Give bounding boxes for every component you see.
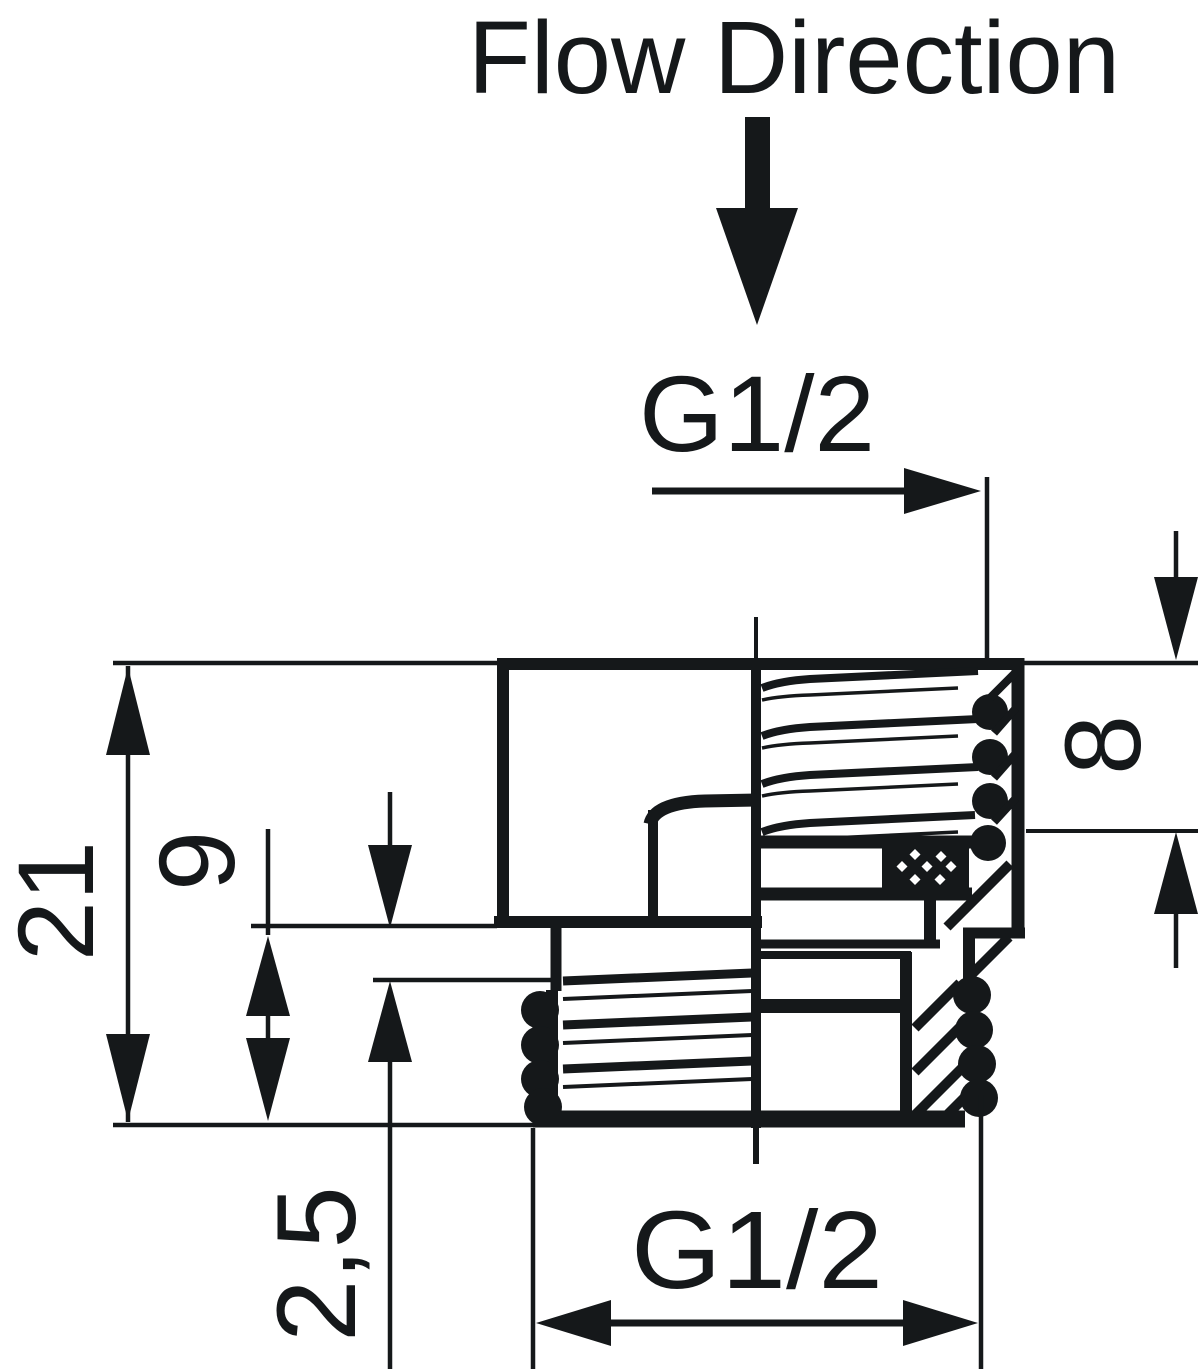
extension line y=926: [251, 924, 497, 929]
upper thread profile bumps: [970, 694, 1008, 861]
arrowhead G1/2 top leader: [904, 468, 981, 514]
centerline: [754, 617, 758, 660]
lower left thread bumps: [521, 991, 562, 1126]
bottom G1/2 extension lines: [531, 1128, 536, 1369]
dimension 2,5 line: [388, 792, 393, 850]
lower left step vertical: [551, 928, 562, 991]
upper female thread lines: [762, 671, 978, 832]
lower right thread bumps: [953, 976, 998, 1117]
body top line: [497, 658, 1018, 670]
inner step top arc: [650, 800, 757, 824]
arrowhead 21 bottom: [106, 1034, 150, 1121]
arrowhead 8 up: [1154, 832, 1198, 914]
svg-text:G1/2: G1/2: [639, 353, 875, 474]
body left edge: [497, 658, 509, 927]
svg-text:Flow Direction: Flow Direction: [468, 0, 1120, 115]
extension line top (y=661 full width): [113, 661, 1198, 666]
lower left thread lines: [563, 973, 752, 1069]
arrowhead 9 up: [246, 936, 290, 1016]
inner wall right: [900, 952, 912, 1118]
upper thread teeth: [990, 672, 1016, 822]
dimension leader G1/2 top: [652, 488, 920, 495]
inner step vertical: [648, 810, 658, 922]
arrowhead 2,5 down: [368, 845, 412, 928]
svg-text:G1/2: G1/2: [631, 1189, 883, 1312]
lower right hatch: [915, 937, 1009, 1118]
arrowhead bottom G1/2 left: [536, 1300, 611, 1346]
lower left thread root line: [546, 990, 558, 1117]
bottom face: [533, 1111, 965, 1128]
bottom G1/2 dimension arrow: [560, 1320, 950, 1327]
extension line top G1/2: [985, 477, 990, 659]
dimension 21 line: [126, 666, 131, 1122]
svg-text:9: 9: [136, 831, 257, 891]
dimension 8: [1026, 829, 1198, 833]
right step face: [963, 928, 1025, 939]
flow direction arrow: [716, 117, 798, 325]
svg-text:2,5: 2,5: [254, 1186, 379, 1342]
arrowhead 21 top: [106, 667, 150, 755]
arrowhead 8 down: [1154, 577, 1198, 660]
arrowhead 9 down: [246, 1038, 290, 1121]
right step vertical: [963, 933, 975, 981]
extension line y=980: [373, 978, 558, 983]
seal wedge hatch: [947, 864, 1010, 927]
seal bottom band: [756, 888, 972, 901]
hex bottom line: [494, 916, 762, 928]
arrowhead 2,5 up: [368, 981, 412, 1062]
seal square with dots: [882, 841, 969, 899]
chamber right wall: [924, 896, 936, 948]
seal top band: [756, 836, 972, 849]
dimension 9 line: [266, 829, 271, 935]
chamber floor line A: [756, 940, 940, 949]
arrowhead bottom G1/2 right: [903, 1300, 978, 1346]
bore step line: [756, 999, 904, 1013]
body right outer wall: [1012, 658, 1025, 931]
extension line bottom left (y=1125): [113, 1123, 533, 1128]
svg-text:8: 8: [1042, 715, 1163, 775]
svg-text:21: 21: [0, 841, 116, 961]
chamber floor line B: [756, 951, 911, 959]
